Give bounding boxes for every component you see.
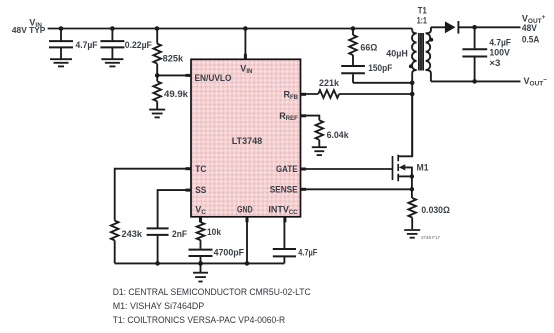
node primary bottom (410, 81, 415, 86)
node rail-C1 (59, 26, 64, 31)
wire VOUT+ (458, 26, 520, 28)
node VC-rail ground (198, 261, 203, 266)
pin stub VIN (244, 54, 247, 60)
svg-text:GND: GND (237, 205, 253, 215)
svg-text:825k: 825k (163, 53, 185, 63)
pin stub GATE (301, 168, 307, 171)
snubber resistor 66ohm (349, 29, 357, 66)
svg-text:66Ω: 66Ω (360, 43, 377, 53)
wire VOUT- (431, 80, 521, 82)
wire RFB to 221k (301, 93, 319, 95)
svg-text:SENSE: SENSE (270, 184, 298, 194)
node rail-C2 (110, 26, 115, 31)
wire SENSE (301, 188, 412, 190)
transformer T1 primary winding 40uH (412, 29, 417, 83)
resistor 6.04k (315, 120, 323, 147)
resistor 49.9k (153, 75, 161, 109)
svg-text:6.04k: 6.04k (327, 130, 350, 140)
transistor Q M1 gate bar (392, 156, 394, 180)
diode D1 (445, 21, 459, 34)
svg-text:2nF: 2nF (172, 229, 187, 239)
svg-text:10k: 10k (207, 227, 222, 237)
svg-text:GATE: GATE (276, 164, 298, 174)
wire SS (158, 190, 191, 228)
wire drain feed (411, 83, 413, 157)
svg-text:×3: ×3 (489, 58, 500, 68)
svg-text:D1: CENTRAL SEMICONDUCTOR CMR5: D1: CENTRAL SEMICONDUCTOR CMR5U-02-LTC (113, 287, 311, 297)
transformer T1 secondary winding (426, 27, 431, 81)
svg-text:T1: COILTRONICS VERSA-PAC VP4-: T1: COILTRONICS VERSA-PAC VP4-0060-R (113, 315, 286, 325)
svg-text:TC: TC (195, 164, 206, 174)
node RFB tap (410, 92, 415, 97)
svg-text:100V: 100V (489, 47, 510, 57)
node EN/UVLO divider (155, 73, 160, 78)
node M1 source (410, 174, 414, 178)
transistor M1 channel segments (397, 155, 399, 182)
svg-text:221k: 221k (319, 78, 340, 88)
notes text (113, 287, 311, 325)
wire GATE (301, 168, 393, 170)
transformer secondary phase dot (429, 38, 433, 42)
pin stub SENSE (301, 188, 307, 191)
transistor M1 drain lead (398, 94, 412, 156)
svg-text:40µH: 40µH (386, 48, 408, 58)
resistor 10k (197, 222, 205, 248)
svg-text:150pF: 150pF (368, 63, 392, 73)
svg-text:0.030Ω: 0.030Ω (421, 205, 450, 215)
pin stub GND (246, 217, 249, 223)
svg-text:0.22µF: 0.22µF (125, 40, 152, 50)
svg-text:4.7µF: 4.7µF (298, 248, 317, 258)
wire VIN pin drop (244, 29, 246, 60)
svg-text:EN/UVLO: EN/UVLO (195, 73, 232, 83)
pin stub VC (199, 217, 202, 223)
wire INTVCC (283, 217, 285, 249)
wire GND pin (246, 217, 248, 264)
capacitor 4.7uF INTVCC (273, 249, 296, 263)
IC pin name labels (195, 64, 299, 216)
svg-text:48V TYP: 48V TYP (12, 26, 46, 35)
pin stub INTVCC (283, 217, 286, 223)
wire TC (115, 169, 191, 221)
wire secondary to diode (431, 26, 445, 28)
svg-text:T1: T1 (418, 6, 427, 16)
ground (input cap 2) (101, 59, 123, 66)
svg-text:4.7µF: 4.7µF (76, 40, 98, 50)
ground (input cap 1) (50, 59, 72, 66)
ground (6.04k) (312, 147, 327, 155)
svg-text:VOUT−: VOUT− (524, 76, 548, 88)
op-amp U1 LT3748 controller block (191, 59, 301, 217)
capacitor 0.22uF input (100, 29, 124, 59)
node output cap top (472, 25, 477, 30)
ground (49.9k) (149, 110, 165, 118)
node output cap bottom (472, 79, 477, 84)
ground (main) (193, 263, 208, 281)
svg-text:49.9k: 49.9k (164, 89, 189, 99)
snubber capacitor 150pF (341, 66, 365, 83)
svg-text:4700pF: 4700pF (214, 248, 245, 258)
node rail-VIN pin (243, 26, 248, 31)
wire EN/UVLO (157, 74, 191, 76)
transistor M1 source lead (398, 175, 412, 177)
pin stub EN/UVLO (186, 74, 192, 77)
resistor 825k (153, 29, 161, 76)
svg-text:LT3748: LT3748 (232, 136, 263, 147)
wire 221k to drain node (339, 93, 412, 95)
resistor 243k (111, 221, 119, 264)
pin stub RREF (301, 114, 307, 117)
wire VIN top rail (48, 28, 413, 30)
wire RREF (301, 116, 320, 121)
pin stub RFB (301, 93, 307, 96)
pin stub TC (186, 167, 192, 170)
node rail-825k (155, 26, 160, 31)
transistor M1 body arrow (399, 164, 412, 176)
capacitor 2nF (147, 228, 169, 263)
svg-text:48V: 48V (522, 23, 537, 33)
svg-text:243k: 243k (122, 229, 144, 239)
capacitor 4.7uF input (49, 29, 73, 59)
pin stub SS (186, 189, 192, 192)
ground (0.030ohm) (404, 230, 420, 238)
node 2nF-rail (155, 261, 160, 266)
wire source to sense (411, 176, 413, 198)
svg-text:4.7µF: 4.7µF (489, 37, 511, 47)
svg-text:1:1: 1:1 (417, 15, 427, 25)
wire VC (200, 217, 202, 222)
svg-text:SS: SS (195, 185, 206, 195)
svg-text:M1: VISHAY Si7464DP: M1: VISHAY Si7464DP (113, 301, 205, 311)
svg-text:0.5A: 0.5A (522, 34, 540, 44)
node rail-snubber (351, 26, 356, 31)
node GND-rail (245, 261, 250, 266)
capacitor 4700pF (189, 250, 213, 264)
resistor 0.030ohm (408, 198, 416, 229)
node SENSE tap (410, 187, 414, 191)
svg-text:M1: M1 (417, 162, 429, 172)
resistor 221k (318, 90, 339, 98)
transformer core (419, 33, 423, 71)
svg-text:3748 F17: 3748 F17 (421, 235, 441, 240)
wire snubber bottom (353, 82, 412, 84)
wire bottom rail (115, 262, 285, 264)
capacitor output 4.7uF 100V x3 (462, 27, 487, 81)
transformer primary phase dot (409, 64, 413, 68)
